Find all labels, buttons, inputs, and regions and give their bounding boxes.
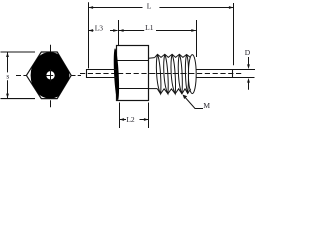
svg-text:L: L xyxy=(147,1,152,10)
dimension D arrows xyxy=(247,57,250,90)
thread coil loop 3 xyxy=(171,54,176,94)
thread coil loop 2 xyxy=(164,54,169,94)
dimension L1 line and arrows xyxy=(119,29,196,32)
thread root zigzag bottom xyxy=(157,89,191,94)
svg-text:L2: L2 xyxy=(126,115,135,124)
hex body side view xyxy=(117,46,149,101)
dimension L3 line and arrows xyxy=(89,29,118,32)
extension line left (L and L3) xyxy=(88,2,90,68)
rubber washer side view xyxy=(113,48,120,100)
thread label M leader xyxy=(183,95,204,109)
svg-text:L3: L3 xyxy=(95,23,104,32)
extension line shaft end xyxy=(233,3,235,65)
side view centerline over block xyxy=(118,73,196,75)
svg-text:s: s xyxy=(6,71,9,80)
svg-text:M: M xyxy=(203,101,210,110)
extension line block left xyxy=(118,20,120,46)
hex body front view xyxy=(26,52,71,99)
dimension S extension lines xyxy=(1,52,36,99)
dimension L2 extension lines xyxy=(120,103,149,129)
thread crest zigzag top xyxy=(155,54,191,57)
dimension L line and arrows xyxy=(89,6,234,9)
dimension L2 line and arrows xyxy=(120,118,149,121)
thread coil loop 5 xyxy=(185,55,188,94)
side view dashed centerline xyxy=(80,73,244,75)
svg-text:D: D xyxy=(245,48,251,57)
extension line thread end xyxy=(196,20,198,57)
hex corner edge upper xyxy=(117,60,149,62)
dimension S line and arrows xyxy=(6,52,9,98)
shaft left segment xyxy=(87,70,117,78)
thread end coil xyxy=(188,55,196,94)
hex corner edge lower xyxy=(117,88,149,90)
shaft right segment with D extension lines xyxy=(196,70,255,78)
thread minor diameter lines xyxy=(149,58,158,89)
rubber washer disc front view xyxy=(31,52,70,98)
svg-text:L1: L1 xyxy=(145,23,154,32)
vertical centerline front view xyxy=(50,45,52,108)
thread coil loop 4 xyxy=(178,54,182,94)
thread coil loop 1 xyxy=(156,54,161,94)
horizontal centerline front view xyxy=(16,75,81,77)
shaft end circle front view xyxy=(46,71,54,79)
